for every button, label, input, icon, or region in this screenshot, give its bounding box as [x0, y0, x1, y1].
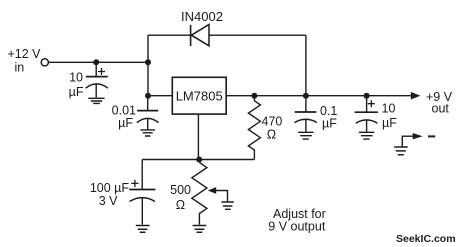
capacitor C4 0.1uF lead: [305, 96, 307, 112]
node bottom rail junction: [196, 157, 202, 163]
ground for C5: [359, 132, 374, 139]
svg-text:µF: µF: [322, 117, 337, 131]
wire input rail: [49, 61, 149, 63]
capacitor C2 top plate: [137, 110, 158, 112]
wire regulator input: [148, 95, 172, 97]
capacitor C5 10uF lead: [366, 96, 368, 112]
svg-text:SeekIC.com: SeekIC.com: [396, 233, 456, 245]
ground for C4: [298, 132, 313, 139]
capacitor C4 lower lead: [305, 119, 307, 132]
output arrowhead: [411, 92, 421, 100]
node 0.01uF junction: [145, 93, 151, 99]
svg-text:10: 10: [382, 101, 396, 115]
capacitor C2 curved plate: [137, 118, 159, 122]
wiper wire: [216, 191, 228, 202]
resistor R2 500 potentiometer: [192, 163, 207, 225]
label minus: [428, 135, 435, 137]
minus terminal arrowhead: [413, 133, 423, 139]
capacitor C4 curved plate: [295, 119, 317, 122]
capacitor C5 curved plate: [356, 120, 378, 123]
capacitor C1 10uF lead: [95, 62, 97, 76]
wire top rail left: [148, 34, 191, 36]
svg-text:µF: µF: [382, 116, 397, 130]
node 470 junction: [251, 93, 257, 99]
svg-text:Ω: Ω: [176, 198, 185, 212]
wire top rail right: [209, 34, 306, 36]
capacitor C3 top plate: [129, 189, 155, 191]
capacitor C1 top plate: [86, 76, 108, 78]
resistor R1 470: [248, 96, 260, 160]
node diode/0.1uF junction: [303, 93, 309, 99]
ground for R2: [193, 226, 207, 233]
svg-text:3 V: 3 V: [99, 194, 118, 208]
capacitor C3 100uF lead: [141, 160, 143, 190]
svg-text:470: 470: [262, 115, 283, 129]
ground for C2: [140, 130, 155, 136]
capacitor C5 lower lead: [366, 120, 368, 132]
diode D1 IN4002 cathode bar: [190, 25, 192, 46]
capacitor C1 curved plate: [86, 84, 108, 88]
op-amp U1 LM7805 box: [172, 77, 226, 114]
svg-text:Ω: Ω: [267, 128, 276, 142]
capacitor C4 top plate: [295, 111, 317, 113]
capacitor C5 top plate: [355, 111, 378, 113]
capacitor C3 lower lead: [141, 198, 143, 225]
wire diode down vertical: [305, 35, 307, 95]
capacitor C5 plus sign: [368, 100, 375, 107]
node 10uF junction: [364, 93, 370, 99]
svg-text:+12 V: +12 V: [8, 47, 42, 61]
capacitor C3 plus sign: [131, 180, 138, 187]
input terminal +12V: [41, 59, 48, 66]
ground for C3: [136, 226, 150, 233]
minus terminal ground: [394, 147, 408, 155]
node input/C1 junction: [93, 59, 99, 65]
capacitor C1 plus sign: [98, 68, 105, 75]
diode D1 triangle: [191, 25, 209, 46]
capacitor C2 0.01uF lead: [147, 96, 149, 111]
minus terminal wire: [402, 136, 413, 147]
capacitor C1 lower lead: [95, 84, 97, 97]
svg-text:9 V output: 9 V output: [268, 220, 326, 234]
capacitor C3 curved plate: [130, 198, 155, 202]
svg-text:500: 500: [170, 183, 191, 197]
svg-text:µF: µF: [69, 85, 84, 99]
svg-text:µF: µF: [118, 116, 133, 130]
node vertical/input rail: [145, 59, 151, 65]
svg-text:10: 10: [69, 71, 83, 85]
svg-text:LM7805: LM7805: [176, 89, 223, 104]
wire bottom rail: [142, 159, 254, 161]
capacitor C2 lower lead: [147, 119, 149, 130]
svg-text:in: in: [15, 61, 25, 75]
wire output rail: [226, 95, 411, 97]
wire regulator ground pin: [197, 114, 199, 159]
svg-text:IN4002: IN4002: [181, 9, 223, 24]
svg-text:out: out: [432, 102, 450, 116]
ground for C1: [88, 98, 104, 103]
wiper arrow of R2: [208, 187, 216, 194]
ground for wiper: [221, 202, 233, 209]
wire main vertical: [147, 35, 149, 95]
